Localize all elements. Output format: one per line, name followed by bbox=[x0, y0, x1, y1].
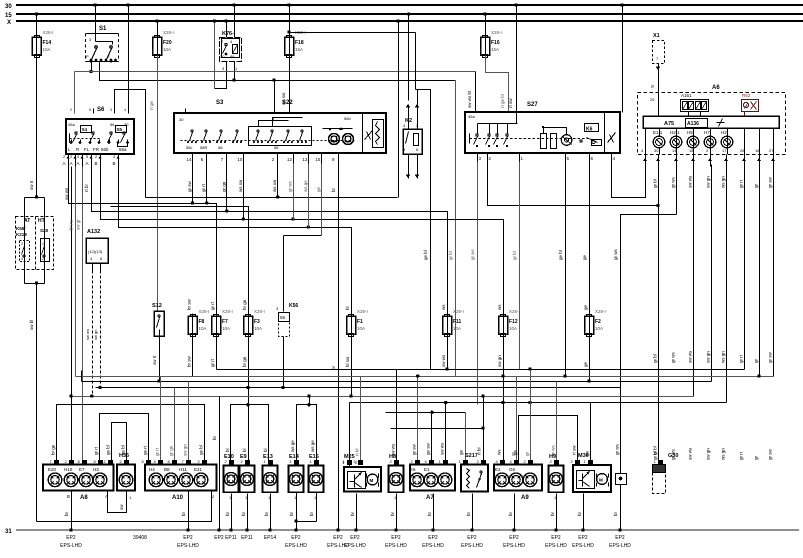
wire L4 S6 to F12 bbox=[101, 167, 504, 317]
svg-text:br: br bbox=[212, 435, 217, 440]
svg-text:H11: H11 bbox=[179, 467, 187, 472]
svg-text:rt ge bl: rt ge bl bbox=[500, 94, 505, 108]
svg-text:12: 12 bbox=[287, 157, 293, 162]
svg-text:A: A bbox=[77, 161, 80, 166]
connector block A7 bbox=[410, 465, 455, 502]
svg-text:30: 30 bbox=[654, 148, 659, 153]
svg-text:4: 4 bbox=[21, 257, 23, 261]
svg-text:86: 86 bbox=[230, 54, 235, 59]
wire S27 pin3 down bbox=[477, 162, 479, 405]
svg-text:15A: 15A bbox=[491, 47, 499, 52]
svg-text:br ge: br ge bbox=[51, 444, 56, 455]
wires below mid fuses bbox=[187, 338, 590, 463]
svg-text:A10: A10 bbox=[172, 495, 184, 501]
wire ground br from S3 pin9 bbox=[338, 164, 340, 531]
svg-text:58R: 58R bbox=[200, 145, 207, 150]
svg-text:sw: sw bbox=[119, 504, 124, 510]
wire A7 pin1 feed from y402.5 bbox=[445, 403, 447, 463]
svg-text:13: 13 bbox=[302, 157, 308, 162]
switch S28 bbox=[40, 228, 50, 262]
svg-text:E9: E9 bbox=[240, 454, 247, 460]
svg-text:gr gn: gr gn bbox=[221, 181, 226, 192]
svg-text:E1: E1 bbox=[424, 467, 430, 472]
svg-text:X: X bbox=[107, 54, 110, 59]
svg-text:4: 4 bbox=[124, 108, 126, 112]
loop rectangle over A9/M36 bbox=[519, 416, 578, 463]
wire gr from A6 pin x=759 bbox=[759, 165, 761, 377]
svg-text:F3: F3 bbox=[254, 319, 260, 325]
svg-text:sw gn: sw gn bbox=[706, 351, 711, 363]
wire S217 pin1 feed elbow bbox=[465, 413, 467, 463]
wire bus30 drop to S27 right bbox=[622, 6, 624, 113]
svg-text:X28-I: X28-I bbox=[163, 30, 174, 35]
svg-text:1: 1 bbox=[42, 242, 44, 246]
switch S12 bbox=[152, 303, 164, 337]
bus line 31 bbox=[16, 529, 799, 531]
svg-text:2: 2 bbox=[21, 242, 23, 246]
svg-text:ge bl: ge bl bbox=[423, 250, 428, 260]
svg-text:ws ge: ws ge bbox=[290, 440, 295, 452]
fuse F3 bbox=[244, 309, 265, 338]
svg-text:45a: 45a bbox=[468, 114, 475, 119]
svg-text:ws sw: ws sw bbox=[272, 179, 277, 192]
connector E14 bbox=[289, 454, 304, 500]
svg-text:EP2: EP2 bbox=[428, 535, 438, 541]
svg-text:EP2: EP2 bbox=[551, 535, 561, 541]
svg-text:br: br bbox=[466, 511, 471, 516]
svg-text:S6: S6 bbox=[97, 107, 105, 113]
wire x415 down to K2 loop bbox=[415, 33, 417, 90]
connector E10 bbox=[224, 454, 239, 500]
svg-text:(12)(13): (12)(13) bbox=[88, 249, 103, 254]
svg-text:H3: H3 bbox=[93, 467, 99, 472]
svg-text:A75: A75 bbox=[664, 121, 674, 127]
svg-text:S27: S27 bbox=[527, 102, 538, 108]
wire L2b to F3 bbox=[111, 207, 249, 317]
svg-text:EP2: EP2 bbox=[183, 535, 193, 541]
svg-text:ge: ge bbox=[583, 361, 588, 367]
wire A10 EP2 drop bbox=[188, 491, 190, 531]
wire A7 pin2 gray feed bbox=[417, 377, 419, 463]
wire F3 column to E9 bbox=[248, 405, 250, 466]
svg-text:15: 15 bbox=[315, 157, 321, 162]
svg-text:EP11: EP11 bbox=[225, 535, 237, 541]
svg-text:ge sw: ge sw bbox=[426, 442, 431, 455]
svg-text:K55/: K55/ bbox=[16, 226, 26, 231]
bus line 30 bbox=[16, 4, 803, 6]
svg-text:H7: H7 bbox=[704, 130, 710, 135]
wire L3 S6 to F11 bbox=[92, 167, 448, 317]
svg-text:rt bl: rt bl bbox=[355, 448, 360, 456]
fuse F16 bbox=[481, 30, 502, 59]
svg-text:E13: E13 bbox=[263, 454, 273, 460]
wire bracket E10/E13 fed by F3 column bbox=[231, 405, 269, 466]
wire S1 pin P down bbox=[91, 62, 93, 72]
connector block A9 bbox=[494, 465, 542, 502]
svg-text:10A: 10A bbox=[509, 326, 517, 331]
svg-text:10A: 10A bbox=[163, 47, 171, 52]
connector block A10 bbox=[145, 465, 217, 502]
sensor G30 dashed bbox=[653, 453, 679, 494]
S6 bottom pins with arrows bbox=[63, 154, 120, 167]
wire gray drop x455 to band bbox=[455, 81, 457, 377]
svg-text:ws sw: ws sw bbox=[238, 179, 243, 192]
svg-text:EP2: EP2 bbox=[291, 535, 301, 541]
svg-text:EPS-LHD: EPS-LHD bbox=[461, 543, 483, 549]
wire junction box down bbox=[620, 485, 622, 531]
svg-text:56: 56 bbox=[110, 122, 115, 127]
wire S217 pin2 feed from y396 bbox=[483, 397, 485, 463]
svg-text:EPS-LHD: EPS-LHD bbox=[60, 543, 82, 549]
loop rectangle over A8/A10 bbox=[57, 405, 205, 463]
fuse F11 bbox=[443, 309, 464, 338]
svg-text:EP2: EP2 bbox=[509, 535, 519, 541]
wire S6 col 75 gray down bbox=[75, 167, 77, 377]
svg-text:gr ws: gr ws bbox=[671, 351, 676, 363]
wire gr bl from A6 pin x=658 bbox=[658, 165, 660, 465]
wires below S3 pins bbox=[187, 164, 322, 236]
svg-text:S217: S217 bbox=[465, 453, 478, 459]
svg-text:10A: 10A bbox=[357, 326, 365, 331]
wire sw ws from A6 pin x=693 bbox=[693, 165, 695, 397]
block A161 bbox=[681, 93, 709, 117]
svg-text:rt ge: rt ge bbox=[149, 100, 154, 110]
distribution line y369 bbox=[217, 369, 745, 371]
svg-text:sw gn: sw gn bbox=[706, 176, 711, 188]
connector feed wires bbox=[155, 370, 591, 463]
loop rectangle 2 bbox=[100, 414, 149, 463]
svg-text:ws gn: ws gn bbox=[721, 176, 726, 188]
switch S6 bbox=[66, 107, 134, 154]
svg-text:ge: ge bbox=[513, 449, 518, 455]
wire S1 pin X elbow feeder y80 bbox=[100, 62, 456, 81]
svg-text:E20: E20 bbox=[48, 467, 57, 472]
svg-text:X1: X1 bbox=[653, 33, 660, 39]
svg-text:rt bl: rt bl bbox=[84, 184, 89, 192]
svg-text:br: br bbox=[64, 511, 69, 516]
relay K55/K218 bbox=[16, 226, 30, 262]
wire F2 feed from S27 pin6 bbox=[589, 162, 591, 317]
switch S27 box bbox=[465, 102, 620, 154]
wire F14 to bus 15 bbox=[36, 15, 38, 38]
svg-text:gr rt: gr rt bbox=[155, 447, 160, 456]
svg-text:F12: F12 bbox=[509, 319, 518, 325]
svg-text:ge: ge bbox=[582, 254, 587, 260]
junction box with dot bbox=[616, 474, 627, 485]
wire S27 pin2 to A6 pin30 junction bbox=[488, 162, 659, 206]
svg-text:S12: S12 bbox=[152, 303, 162, 309]
connector H8 bbox=[389, 454, 404, 500]
dashed box AT/HT bbox=[16, 217, 54, 270]
distribution line y376 bbox=[76, 376, 774, 378]
wire gray feeder y71.5 bbox=[75, 71, 476, 73]
svg-text:EP2: EP2 bbox=[578, 535, 588, 541]
svg-text:br gn: br gn bbox=[242, 356, 247, 367]
svg-text:br: br bbox=[577, 511, 582, 516]
fuse F7 bbox=[212, 309, 233, 338]
svg-text:56b: 56b bbox=[344, 116, 351, 121]
wire bracket E14/E15 bbox=[297, 405, 317, 466]
svg-text:sw ws: sw ws bbox=[85, 329, 90, 340]
loop rectangle H36 bbox=[112, 423, 127, 463]
svg-text:EPS-LHD: EPS-LHD bbox=[177, 543, 199, 549]
svg-text:gr ws: gr ws bbox=[615, 443, 620, 455]
svg-text:M36: M36 bbox=[578, 453, 589, 459]
svg-text:E10: E10 bbox=[224, 454, 234, 460]
wire S22 feed drop bbox=[274, 81, 276, 114]
distribution line y396 gray bbox=[72, 396, 694, 398]
svg-text:rt sw: rt sw bbox=[572, 445, 577, 455]
wire labels above mid fuses bbox=[187, 298, 589, 310]
svg-text:gr: gr bbox=[525, 451, 530, 456]
svg-text:10A: 10A bbox=[199, 326, 207, 331]
wire bus to K2 area x398 bbox=[398, 22, 400, 198]
svg-text:H5: H5 bbox=[687, 130, 693, 135]
wire L6 S3pin15 to K56 bbox=[284, 235, 322, 237]
svg-text:rt sw: rt sw bbox=[508, 98, 513, 108]
svg-text:10A: 10A bbox=[595, 326, 603, 331]
connector H9 bbox=[549, 454, 564, 500]
svg-text:ge: ge bbox=[316, 186, 321, 192]
switch S3/S22 assembly box bbox=[174, 100, 386, 154]
svg-text:gr sw: gr sw bbox=[768, 448, 773, 460]
svg-text:gr ws: gr ws bbox=[470, 248, 475, 260]
svg-text:EPS-LHD: EPS-LHD bbox=[344, 543, 366, 549]
fuse F20 bbox=[153, 30, 174, 59]
svg-text:bl: bl bbox=[345, 306, 350, 310]
svg-text:sw gn: sw gn bbox=[706, 448, 711, 460]
connector block A8 bbox=[43, 465, 114, 502]
svg-text:H10: H10 bbox=[64, 467, 73, 472]
A6 warning lamps E1.1 H2.1 H5 H7 H2 bbox=[653, 129, 733, 155]
A6 bottom pins with arrows bbox=[641, 148, 775, 167]
svg-text:ge bl: ge bl bbox=[558, 250, 563, 260]
wire S6 col 91 to L3 bbox=[91, 167, 93, 212]
svg-text:A8: A8 bbox=[80, 495, 88, 501]
svg-text:br: br bbox=[350, 511, 355, 516]
svg-text:H2: H2 bbox=[721, 130, 727, 135]
wire L1 loop to K2 column bbox=[146, 197, 398, 199]
distribution line y402.5 bbox=[350, 402, 727, 404]
wire EP2 drop x219 bbox=[219, 397, 221, 531]
svg-text:2: 2 bbox=[70, 108, 72, 112]
wire gr rt from A6 pin x=744 bbox=[744, 165, 746, 370]
svg-text:gr: gr bbox=[754, 455, 759, 460]
labels on E lamp feeds bbox=[225, 440, 315, 452]
svg-text:br: br bbox=[225, 511, 230, 516]
wire K2 pin2 U loop to band bbox=[416, 90, 431, 370]
svg-text:K76-I: K76-I bbox=[222, 31, 236, 37]
svg-text:30: 30 bbox=[5, 4, 12, 10]
svg-text:ws ge: ws ge bbox=[303, 180, 308, 192]
svg-text:X28-I: X28-I bbox=[491, 30, 502, 35]
wire bus30 to S27 bbox=[516, 6, 518, 113]
S6 top pin numbers bbox=[70, 108, 126, 112]
connector E13 bbox=[263, 454, 278, 500]
svg-text:br gn: br gn bbox=[242, 299, 247, 310]
S3 bottom pins bbox=[187, 154, 339, 164]
svg-text:S1: S1 bbox=[99, 26, 107, 32]
fuse F8 bbox=[188, 309, 209, 338]
wire sw gn from A6 pin x=711 bbox=[711, 165, 713, 382]
svg-text:sw gn: sw gn bbox=[183, 444, 188, 456]
svg-text:gr rt: gr rt bbox=[739, 451, 744, 460]
wire A132 dashed drops bbox=[85, 271, 101, 397]
wire F20 to bus X bbox=[157, 22, 159, 38]
wire S6 pin56 loop rectangle bbox=[115, 90, 146, 114]
svg-text:A: A bbox=[86, 161, 89, 166]
svg-text:ws: ws bbox=[497, 304, 502, 310]
svg-text:E21: E21 bbox=[194, 467, 203, 472]
svg-text:56: 56 bbox=[280, 315, 286, 320]
svg-text:H9: H9 bbox=[549, 454, 556, 460]
wire bus30 to K2 arrow bbox=[408, 15, 410, 101]
svg-text:sw ws: sw ws bbox=[688, 175, 693, 188]
svg-text:sw ws: sw ws bbox=[64, 187, 69, 200]
svg-text:br sw: br sw bbox=[187, 298, 192, 310]
svg-text:31: 31 bbox=[5, 529, 12, 535]
block A75 A136 inside A6 bbox=[643, 116, 779, 128]
svg-text:sw gn: sw gn bbox=[497, 355, 502, 367]
svg-text:gr sw: gr sw bbox=[412, 443, 417, 455]
svg-text:br: br bbox=[181, 511, 186, 516]
svg-text:br: br bbox=[264, 511, 269, 516]
svg-text:17: 17 bbox=[722, 148, 727, 153]
feed labels on loop wires bbox=[51, 442, 658, 455]
svg-text:B: B bbox=[67, 494, 70, 499]
svg-text:EPS-LHD: EPS-LHD bbox=[572, 543, 594, 549]
svg-text:ge bl: ge bl bbox=[199, 445, 204, 455]
wire L5 S6 to F1 bbox=[119, 167, 352, 317]
wire K76 pin4 to bus 30 bbox=[234, 6, 236, 38]
wire F18 junction east line y32 bbox=[290, 32, 416, 34]
wire gray feeder drop to S6 pin 45a bbox=[74, 72, 76, 114]
svg-text:10A: 10A bbox=[453, 326, 461, 331]
block A132 bbox=[86, 229, 108, 271]
svg-text:H8: H8 bbox=[389, 454, 396, 460]
motor M25 bbox=[342, 454, 381, 492]
svg-text:EPS-LHD: EPS-LHD bbox=[385, 543, 407, 549]
svg-text:56: 56 bbox=[274, 145, 279, 150]
svg-text:F11: F11 bbox=[453, 319, 462, 325]
svg-text:gr rt: gr rt bbox=[94, 446, 99, 455]
svg-text:br: br bbox=[508, 511, 513, 516]
svg-text:F16: F16 bbox=[491, 40, 500, 46]
svg-text:sw ws bl: sw ws bl bbox=[467, 91, 472, 108]
wire y402.5 left elbow to M25 pin1 bbox=[349, 403, 351, 468]
svg-text:ws ge: ws ge bbox=[310, 440, 315, 452]
svg-text:sw ws: sw ws bbox=[688, 447, 693, 460]
svg-text:gr: gr bbox=[754, 358, 759, 363]
svg-text:EP14: EP14 bbox=[264, 535, 276, 541]
svg-text:R62: R62 bbox=[742, 93, 751, 98]
distribution line y387.5 bbox=[96, 387, 621, 389]
svg-text:sw ws: sw ws bbox=[688, 350, 693, 363]
svg-text:30: 30 bbox=[220, 54, 225, 59]
svg-text:gr bl: gr bl bbox=[653, 446, 658, 455]
svg-text:bl sw: bl sw bbox=[345, 356, 350, 367]
svg-text:EP11: EP11 bbox=[241, 535, 253, 541]
svg-text:H2.1: H2.1 bbox=[670, 130, 680, 135]
relay K2 bbox=[403, 90, 422, 179]
connector E15 bbox=[309, 454, 324, 500]
svg-text:FL: FL bbox=[84, 147, 90, 152]
svg-text:br: br bbox=[309, 511, 314, 516]
wire loop right side down beside S6 bbox=[145, 90, 147, 198]
svg-text:B: B bbox=[95, 161, 98, 166]
svg-text:K56: K56 bbox=[289, 303, 298, 309]
svg-text:10A: 10A bbox=[43, 47, 51, 52]
svg-text:ge bl: ge bl bbox=[106, 445, 111, 455]
wire gr ws elbow to junction box column bbox=[621, 215, 677, 474]
svg-text:B8: B8 bbox=[164, 467, 170, 472]
relay K76-I bbox=[220, 31, 242, 71]
fuse F18 bbox=[285, 30, 306, 59]
svg-text:56a: 56a bbox=[119, 147, 127, 152]
svg-text:EP2: EP2 bbox=[467, 535, 477, 541]
svg-text:M: M bbox=[370, 478, 374, 483]
distribution line y412 bbox=[386, 412, 466, 414]
svg-text:K218: K218 bbox=[16, 232, 27, 237]
wire S1 pin3 to bus 30 bbox=[95, 6, 97, 34]
svg-text:A132: A132 bbox=[87, 229, 100, 235]
svg-text:br: br bbox=[289, 511, 294, 516]
wire E14/E15 join bbox=[289, 493, 317, 532]
svg-text:EP2: EP2 bbox=[333, 535, 343, 541]
svg-text:E1.1: E1.1 bbox=[653, 130, 663, 135]
svg-text:G6: G6 bbox=[509, 467, 516, 472]
svg-text:gr bl: gr bl bbox=[512, 251, 517, 260]
svg-text:X28-I: X28-I bbox=[453, 309, 464, 314]
svg-text:sw gr: sw gr bbox=[76, 219, 81, 230]
wire A8 EP2 drop bbox=[71, 491, 73, 531]
wire X1 into A6 pin 25 bbox=[658, 93, 660, 117]
svg-text:F2: F2 bbox=[595, 319, 601, 325]
svg-text:G30: G30 bbox=[668, 453, 678, 459]
svg-text:EPS-LHD: EPS-LHD bbox=[422, 543, 444, 549]
svg-text:bl ws: bl ws bbox=[69, 219, 74, 230]
svg-text:X28-I: X28-I bbox=[595, 309, 606, 314]
svg-text:25: 25 bbox=[650, 97, 655, 102]
svg-text:bl: bl bbox=[263, 448, 268, 452]
motor M36 bbox=[573, 453, 611, 492]
wire K76 pin3 elbow bbox=[215, 67, 227, 89]
wire F18 down to S22 bbox=[289, 56, 291, 114]
svg-text:gr ws: gr ws bbox=[288, 180, 293, 192]
fuse F1 bbox=[347, 309, 368, 338]
svg-text:H4: H4 bbox=[149, 467, 155, 472]
svg-text:bl: bl bbox=[225, 448, 230, 452]
svg-text:ws: ws bbox=[497, 449, 502, 455]
svg-text:S5: S5 bbox=[117, 127, 123, 132]
svg-text:gr rt: gr rt bbox=[201, 183, 206, 192]
svg-text:ws gn: ws gn bbox=[721, 448, 726, 460]
svg-text:br: br bbox=[241, 511, 246, 516]
svg-text:EP2: EP2 bbox=[214, 535, 224, 541]
fuse F14 bbox=[32, 30, 53, 59]
wire F20 down to S12 bbox=[157, 56, 159, 312]
svg-text:gr bl: gr bl bbox=[448, 251, 453, 260]
svg-text:gr rt: gr rt bbox=[210, 301, 215, 310]
svg-text:F14: F14 bbox=[43, 40, 52, 46]
svg-text:FR: FR bbox=[93, 147, 100, 152]
svg-text:ge: ge bbox=[583, 304, 588, 310]
wire A7 pin4 feed bbox=[431, 413, 433, 463]
svg-text:br sw: br sw bbox=[187, 355, 192, 367]
ground point labels EP bbox=[60, 535, 631, 549]
svg-text:X28-I: X28-I bbox=[43, 30, 54, 35]
svg-text:X28-I: X28-I bbox=[199, 309, 210, 314]
